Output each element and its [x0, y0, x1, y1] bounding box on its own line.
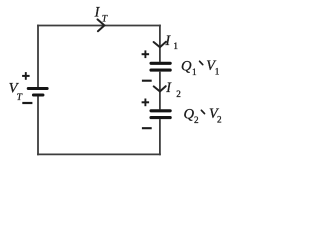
wire top (node between VT+ and Q1+)	[37, 25, 161, 27]
wire bottom (node between VT- and Q2-)	[37, 153, 161, 155]
capacitor Q2 (charge Q2, voltage V2)	[151, 111, 170, 118]
battery VT (voltage source, long positive plate and short negative plate)	[28, 89, 47, 96]
capacitor Q2 plus polarity mark	[142, 99, 150, 107]
label Q1 V1	[181, 58, 220, 77]
label Q2 V2	[184, 106, 223, 125]
wire right upper (top-right corner to Q1+)	[159, 25, 161, 62]
svg-text:2: 2	[217, 115, 222, 125]
capacitor Q1 minus polarity mark	[142, 80, 152, 82]
label IT	[94, 5, 108, 25]
wire right lower (Q2- to bottom-right corner)	[159, 119, 161, 155]
svg-text:2: 2	[176, 89, 181, 99]
capacitor Q1 plus polarity mark	[142, 50, 150, 58]
battery VT plus polarity mark	[22, 72, 30, 80]
arrow I2 current direction into Q2	[154, 86, 166, 91]
arrow I1 current direction into Q1	[154, 42, 166, 48]
svg-text:T: T	[17, 92, 23, 103]
capacitor Q2 minus polarity mark	[142, 127, 152, 129]
svg-text:Q: Q	[184, 107, 195, 123]
svg-text:1: 1	[215, 67, 220, 77]
label VT	[9, 81, 23, 103]
svg-text:Q: Q	[181, 58, 192, 74]
svg-text:T: T	[102, 13, 108, 24]
wire left lower (VT- to bottom-left corner)	[37, 96, 39, 155]
battery VT minus polarity mark	[22, 102, 32, 104]
wire right middle (Q1- to Q2+)	[159, 72, 161, 110]
arrow IT current direction on top wire	[98, 19, 105, 31]
capacitor Q1 (charge Q1, voltage V1)	[151, 63, 170, 70]
svg-text:1: 1	[173, 41, 178, 51]
wire left upper (VT+ to top-left corner)	[37, 25, 39, 88]
label I2	[165, 80, 181, 99]
svg-text:2: 2	[194, 115, 199, 125]
label I1	[164, 33, 178, 51]
svg-text:1: 1	[192, 67, 197, 77]
